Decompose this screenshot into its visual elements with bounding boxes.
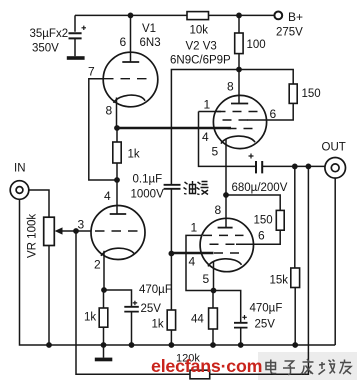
node dot V3 grid bbox=[169, 251, 175, 257]
wire V1 grid pin7 to bracket bbox=[89, 79, 117, 180]
V3 plate lead pin8 bbox=[225, 195, 227, 228]
svg-text:1k: 1k bbox=[152, 319, 164, 331]
V3 cathode lead pin5 bbox=[213, 262, 215, 291]
wire node to 150 (V2) bbox=[239, 70, 293, 85]
capacitor 0.1uF plates bbox=[164, 185, 181, 189]
node dot 44 bottom bbox=[210, 342, 216, 348]
wire top rail B+ bbox=[75, 14, 274, 16]
resistor 1k (V1b cathode) bbox=[103, 290, 105, 345]
node dot wiper/grid/feedback bbox=[73, 228, 79, 234]
node dot V3 cathode bbox=[211, 288, 217, 294]
node dot plate V1b bbox=[114, 177, 120, 183]
capacitor 470uF (V1b) plus bbox=[133, 301, 138, 305]
V1b plate lead pin4 bbox=[116, 180, 118, 214]
capacitor 680u/200V plates bbox=[256, 161, 262, 173]
resistor 44 bbox=[212, 291, 214, 346]
node dot SRPP mid bbox=[223, 192, 229, 198]
svg-text:2: 2 bbox=[94, 258, 101, 272]
char shao bbox=[319, 360, 336, 375]
node dot 1k bottom / ground bbox=[101, 342, 107, 348]
svg-text:5: 5 bbox=[212, 145, 219, 159]
svg-text:elecfans·com: elecfans·com bbox=[151, 356, 262, 376]
svg-text:1k: 1k bbox=[128, 149, 140, 161]
svg-text:6: 6 bbox=[270, 107, 277, 121]
svg-text:1000V: 1000V bbox=[131, 189, 165, 201]
svg-text:7: 7 bbox=[88, 65, 95, 79]
svg-text:VR 100k: VR 100k bbox=[27, 214, 39, 258]
svg-text:6: 6 bbox=[258, 229, 265, 243]
svg-text:1k: 1k bbox=[84, 312, 96, 324]
capacitor 470uF/25V (V1b) plates bbox=[124, 307, 139, 312]
label oil-immersed (you jin) hand-drawn bbox=[184, 181, 209, 195]
ground (filter cap) bbox=[67, 56, 85, 60]
svg-text:8: 8 bbox=[227, 80, 234, 94]
svg-text:3: 3 bbox=[78, 218, 85, 232]
svg-text:8: 8 bbox=[215, 203, 222, 217]
wire V3 cathode to bypass cap bbox=[214, 291, 241, 323]
wire V2 pin1 lead bbox=[199, 111, 222, 113]
node dot 1k grid leak bottom bbox=[169, 342, 175, 348]
wire V3 grid3 pin4 thick lead bbox=[171, 252, 213, 255]
wire cathode to bypass cap (V1b) bbox=[104, 290, 132, 306]
V3 grid2 (dashed) bbox=[210, 243, 239, 245]
resistor 10k bbox=[187, 12, 209, 20]
watermark grey background bbox=[258, 352, 357, 380]
capacitor 470uF (V3) plus bbox=[242, 315, 247, 320]
node dot VR bottom bbox=[46, 342, 52, 348]
wire VR bottom to rail bbox=[48, 246, 50, 346]
svg-text:V2 V3: V2 V3 bbox=[186, 41, 217, 53]
V3 cathode bbox=[208, 259, 242, 267]
svg-text:IN: IN bbox=[14, 163, 26, 175]
wire V2 grid1 bracket to output cap bbox=[199, 112, 256, 167]
V1 plate lead bbox=[130, 15, 132, 62]
wire 680u to OUT bbox=[262, 165, 325, 167]
svg-text:470µF: 470µF bbox=[139, 284, 172, 296]
V1b cathode lead pin2 bbox=[103, 251, 105, 290]
VR wiper arrow bbox=[59, 230, 76, 232]
wire 35uF stub and stem bbox=[74, 15, 76, 56]
svg-text:B+: B+ bbox=[288, 10, 303, 24]
char dian bbox=[266, 360, 276, 374]
V1 cathode lead pin8 bbox=[116, 98, 118, 129]
resistor 120k bbox=[190, 370, 210, 379]
svg-text:6N3: 6N3 bbox=[140, 37, 161, 49]
capacitor 470uF/25V (V3) plates bbox=[234, 323, 248, 328]
V1 cathode bbox=[114, 95, 146, 103]
svg-text:350V: 350V bbox=[32, 43, 59, 55]
wire feedback left to VR wiper node bbox=[76, 231, 190, 374]
node dot cap bottom (V1b) bbox=[129, 342, 135, 348]
wire V3 pin1 lead and bracket bbox=[186, 235, 214, 290]
svg-text:8: 8 bbox=[106, 104, 113, 118]
svg-text:1: 1 bbox=[204, 98, 211, 112]
V2 plate bbox=[231, 103, 248, 105]
V2 grid3 (dashed) bbox=[228, 128, 257, 130]
V2 cathode lead pin5 bbox=[225, 139, 227, 195]
svg-text:4: 4 bbox=[104, 189, 111, 203]
char zi bbox=[283, 361, 295, 375]
svg-text:4: 4 bbox=[189, 255, 196, 269]
char jin (immersed) bbox=[197, 182, 209, 195]
V2 cathode bbox=[221, 136, 255, 144]
svg-text:100: 100 bbox=[247, 39, 266, 51]
resistor 150 (V3) bbox=[276, 210, 284, 230]
node dot B+/100 bbox=[236, 13, 242, 19]
V1b grid (dashed) bbox=[95, 230, 140, 232]
wire SRPP mid to 150 (V3) bbox=[226, 195, 280, 210]
V2 grid1 (dashed) bbox=[217, 111, 259, 113]
node dot 15k bottom bbox=[292, 342, 298, 348]
resistor 15k bbox=[294, 166, 296, 268]
wire feedback right vertical bbox=[210, 166, 309, 374]
tube V3 envelope bbox=[200, 218, 253, 271]
V3 grid3 (dashed) bbox=[214, 252, 244, 254]
svg-text:275V: 275V bbox=[276, 26, 303, 38]
V2 plate lead pin8 bbox=[238, 70, 240, 104]
wire OUT ground bbox=[334, 178, 336, 345]
resistor 1k (V3 grid leak) bbox=[167, 310, 175, 330]
wire V2 pin6 lead bbox=[247, 119, 267, 121]
node dot V2 plate bbox=[236, 67, 242, 73]
resistor 100 bbox=[238, 15, 240, 69]
char fa bbox=[301, 359, 314, 374]
capacitor C1 plus sign bbox=[82, 26, 87, 30]
tube V1b envelope bbox=[91, 206, 145, 260]
watermark chinese (dian zi fa shao you) hand-drawn bbox=[266, 359, 351, 375]
wire V3 pin6 lead bbox=[236, 243, 254, 245]
V1 grid (dashed) bbox=[104, 78, 149, 80]
svg-text:6N9C/6P9P: 6N9C/6P9P bbox=[170, 55, 231, 67]
node dot V1 plate bbox=[128, 13, 134, 19]
V1b cathode bbox=[101, 248, 135, 256]
wire V1 cathode to V2 grid (thick) bbox=[117, 127, 231, 130]
ground symbol bbox=[103, 345, 105, 358]
svg-text:25V: 25V bbox=[141, 303, 162, 315]
svg-text:680µ/200V: 680µ/200V bbox=[232, 182, 288, 194]
resistor 150 (V2) bbox=[289, 84, 297, 103]
svg-text:6: 6 bbox=[120, 35, 127, 49]
wire V1b grid pin3 bbox=[76, 230, 92, 232]
svg-text:150: 150 bbox=[254, 215, 273, 227]
wire 150 to pin6 V3 bbox=[254, 230, 281, 244]
svg-text:4: 4 bbox=[202, 130, 209, 144]
svg-text:10k: 10k bbox=[190, 25, 209, 37]
V3 grid1 (dashed) bbox=[203, 234, 244, 236]
svg-text:1: 1 bbox=[191, 221, 198, 235]
terminal IN bbox=[10, 181, 29, 200]
wire coupling branch from node100 bbox=[171, 70, 239, 185]
wire 0.1uF to V3 grid node bbox=[170, 189, 172, 310]
svg-text:V1: V1 bbox=[142, 23, 156, 35]
terminal B+ bbox=[274, 12, 282, 20]
node dot feedback top bbox=[306, 164, 312, 170]
tube V2 envelope bbox=[213, 95, 266, 148]
tube V1 envelope bbox=[103, 52, 158, 107]
svg-text:OUT: OUT bbox=[322, 142, 346, 154]
svg-text:0.1µF: 0.1µF bbox=[133, 174, 163, 186]
potentiometer VR 100k bbox=[44, 217, 55, 245]
wire IN ground / bottom rail bbox=[20, 199, 336, 345]
svg-text:5: 5 bbox=[203, 272, 210, 286]
svg-text:44: 44 bbox=[191, 314, 204, 326]
V1 plate bbox=[122, 61, 139, 63]
V3 plate bbox=[218, 227, 233, 229]
node dot V1b cathode bbox=[101, 287, 107, 293]
resistor 1k (V1 cathode) bbox=[116, 128, 118, 180]
V2 grid2 (dashed) bbox=[223, 119, 251, 121]
svg-text:150: 150 bbox=[302, 88, 321, 100]
terminal OUT bbox=[325, 158, 346, 179]
node dot 15k top bbox=[292, 164, 298, 170]
capacitor 680u plus bbox=[249, 154, 254, 159]
svg-text:470µF: 470µF bbox=[250, 303, 283, 315]
wire IN to VR bbox=[29, 190, 49, 217]
char you bbox=[340, 360, 352, 375]
V1b plate bbox=[110, 213, 127, 215]
svg-text:25V: 25V bbox=[255, 319, 276, 331]
capacitor C1 35uFx2 plates bbox=[69, 33, 82, 38]
node dot V1 cathode bbox=[114, 125, 120, 131]
svg-text:35µFx2: 35µFx2 bbox=[30, 28, 69, 40]
char you (oil) bbox=[184, 181, 196, 194]
svg-text:15k: 15k bbox=[270, 275, 289, 287]
wire 150 to pin6 V2 bbox=[267, 103, 294, 120]
node dot cap bottom (V3) bbox=[238, 342, 244, 348]
